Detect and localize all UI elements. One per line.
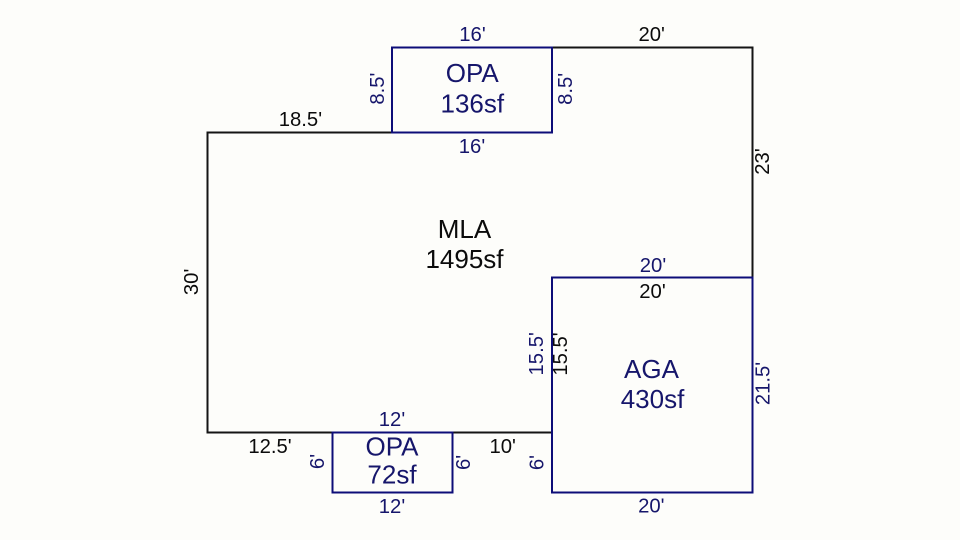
svg-text:16': 16' (459, 136, 485, 158)
svg-text:30': 30' (181, 269, 203, 295)
svg-text:430sf: 430sf (621, 384, 685, 414)
svg-text:20': 20' (640, 255, 666, 277)
svg-text:12.5': 12.5' (248, 436, 291, 458)
svg-text:12': 12' (379, 496, 405, 518)
svg-text:6': 6' (307, 454, 329, 469)
svg-text:15.5': 15.5' (526, 332, 548, 375)
svg-text:OPA: OPA (446, 58, 500, 88)
svg-text:18.5': 18.5' (279, 109, 322, 131)
svg-text:136sf: 136sf (440, 88, 504, 118)
svg-text:8.5': 8.5' (367, 73, 389, 105)
svg-text:MLA: MLA (438, 214, 492, 244)
svg-text:12': 12' (379, 409, 405, 431)
svg-text:20': 20' (639, 281, 665, 303)
svg-text:OPA: OPA (366, 431, 420, 461)
svg-text:20': 20' (638, 496, 664, 518)
svg-text:20': 20' (638, 24, 664, 46)
svg-text:6': 6' (453, 455, 475, 470)
svg-text:6': 6' (527, 455, 549, 470)
OPA bottom rectangle (333, 433, 453, 493)
MLA outline (black polygon) (208, 48, 753, 433)
svg-text:21.5': 21.5' (753, 362, 775, 405)
OPA top rectangle (392, 48, 552, 133)
svg-text:10': 10' (489, 436, 515, 458)
svg-text:72sf: 72sf (367, 459, 417, 489)
AGA rectangle (552, 278, 753, 493)
svg-text:8.5': 8.5' (555, 73, 577, 105)
svg-text:15.5': 15.5' (550, 332, 572, 375)
svg-text:AGA: AGA (624, 354, 680, 384)
svg-text:23': 23' (752, 148, 774, 174)
svg-text:1495sf: 1495sf (425, 244, 504, 274)
svg-text:16': 16' (459, 24, 485, 46)
